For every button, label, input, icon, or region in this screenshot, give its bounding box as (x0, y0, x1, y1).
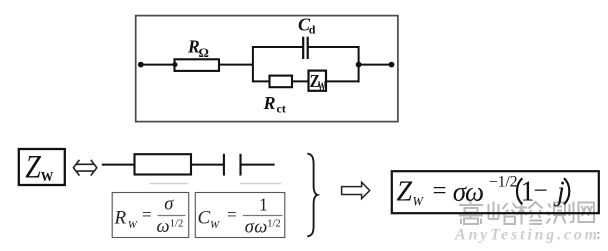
svg-text:W: W (318, 79, 326, 93)
svg-text:ω: ω (465, 177, 484, 207)
label R_ct (263, 93, 286, 116)
label Z_W in box (310, 71, 326, 94)
wire to right terminal (359, 64, 392, 66)
left bar of parallel block (252, 46, 254, 82)
svg-text:=: = (433, 178, 447, 205)
Z_W definition box (19, 149, 65, 185)
svg-text:ω: ω (157, 217, 170, 237)
svg-text:Z: Z (25, 148, 41, 185)
top branch wire capacitor to right bar (308, 46, 360, 48)
double arrow (equivalence) (73, 160, 96, 176)
label Z_W big (25, 148, 54, 185)
equation R_W = sigma/omega^1/2 (114, 194, 186, 237)
svg-text:R: R (263, 93, 276, 113)
svg-text:1: 1 (259, 194, 268, 214)
left terminal node (138, 62, 144, 68)
svg-text:σ: σ (245, 217, 255, 237)
wire from C_W right (241, 164, 275, 166)
equation box C_W (195, 193, 284, 238)
svg-text:−1/2: −1/2 (489, 173, 518, 190)
svg-text:−: − (534, 178, 548, 205)
svg-text:1/2: 1/2 (267, 219, 280, 230)
junction node right (356, 62, 362, 68)
hollow implication arrow (342, 182, 370, 199)
svg-text:=: = (227, 205, 237, 224)
capacitor C_W plates (224, 154, 241, 176)
label C_d (298, 14, 316, 36)
svg-text:ct: ct (277, 102, 286, 116)
resistor R_W (box) (135, 154, 192, 174)
ghost dash artifact left (150, 183, 188, 185)
Warburg element Z_W box (309, 71, 327, 91)
bottom branch wire to R_ct (253, 80, 270, 82)
svg-text:d: d (309, 23, 316, 37)
label R_ohm (187, 36, 209, 60)
big curly brace (307, 154, 317, 237)
result equation box (392, 171, 599, 213)
capacitor C_d (303, 37, 308, 59)
resistor R_ct (270, 76, 293, 88)
wire to Warburg R (102, 164, 135, 166)
svg-text::: : (597, 228, 601, 243)
svg-text:W: W (128, 219, 138, 231)
svg-text:Ω: Ω (199, 45, 209, 60)
svg-text:σ: σ (164, 194, 174, 214)
svg-text:1/2: 1/2 (170, 218, 183, 229)
wire Z_W to right bar (326, 80, 360, 82)
equation box R_W (112, 193, 189, 238)
resistor R_ohm (175, 59, 220, 71)
svg-text:C: C (198, 208, 211, 229)
wire R_W to C_W (191, 164, 224, 166)
right bar of parallel block (358, 46, 360, 82)
svg-text:=: = (142, 205, 152, 224)
watermark Chinese characters (drawn strokes) (459, 201, 594, 225)
ghost dash artifact right (240, 183, 281, 185)
wire R_ct to Z_W box (292, 80, 309, 82)
svg-text:R: R (114, 208, 127, 229)
svg-text:AnyTesting.com: AnyTesting.com (454, 227, 600, 244)
outer frame of equivalent-circuit box (136, 16, 398, 122)
svg-text:Z: Z (397, 177, 413, 208)
svg-text:W: W (210, 219, 220, 231)
svg-text:1: 1 (521, 177, 535, 208)
top branch wire to capacitor (252, 46, 303, 48)
result equation Z_W = sigma omega^-1/2 (1-j) (397, 173, 570, 208)
junction dot at R input (173, 62, 178, 67)
svg-text:W: W (413, 195, 425, 209)
wire left terminal to R (141, 64, 175, 66)
equation C_W = 1/(sigma omega^1/2) (198, 194, 283, 237)
right terminal node (389, 62, 395, 68)
wire R to parallel block (219, 64, 253, 66)
svg-text:ω: ω (254, 217, 267, 237)
svg-text:W: W (41, 168, 54, 184)
